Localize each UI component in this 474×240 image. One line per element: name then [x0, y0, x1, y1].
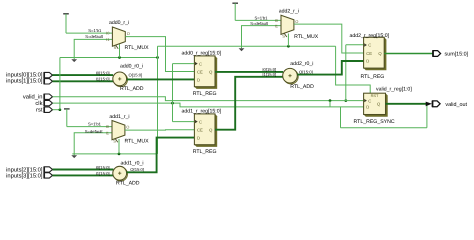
input port inputs[3][15:0]	[6, 172, 52, 179]
wire mux add1_r_i select drop	[118, 139, 120, 154]
svg-text:add2_r0_i: add2_r0_i	[290, 61, 313, 67]
svg-text:inputs[1][15:0]: inputs[1][15:0]	[6, 78, 43, 85]
wire valid_r_reg Q to valid_out port	[386, 103, 427, 105]
svg-text:C: C	[368, 98, 371, 103]
wire mux add2_r_i O to add2_r_reg CE	[294, 24, 364, 53]
svg-text:valid_r_reg[1:0]: valid_r_reg[1:0]	[376, 87, 412, 93]
wire rst riser x157	[157, 46, 159, 154]
wire adder add2_r0_i O bus to add2_r_reg D	[297, 61, 363, 75]
svg-text:RTL_REG: RTL_REG	[193, 91, 217, 97]
wire valid_r feedback riser	[340, 107, 342, 128]
svg-text:add2_r_i: add2_r_i	[279, 8, 299, 14]
junction net at riser x345.8	[344, 99, 347, 102]
value label S=1'b1 mux add0_r_i	[88, 28, 102, 33]
svg-text:inputs[0][15:0]: inputs[0][15:0]	[6, 71, 43, 78]
wire rst row3 (bottom, to add1 mux)	[72, 153, 157, 155]
value label S=1'b1 mux add2_r_i	[254, 16, 268, 21]
wire clk to add1_r_reg C	[173, 121, 195, 123]
svg-text:add1_r_reg[15:0]: add1_r_reg[15:0]	[182, 108, 222, 114]
svg-text:CE: CE	[197, 127, 203, 132]
ground for mux add1_r_i I1	[71, 155, 77, 158]
input port valid_in	[23, 94, 53, 101]
wire valid tap drop to D row	[329, 101, 331, 107]
svg-text:RTL_MUX: RTL_MUX	[294, 34, 319, 40]
const1 vcc for mux add1_r_i	[64, 109, 70, 127]
svg-text:CE: CE	[197, 69, 203, 74]
svg-text:C: C	[199, 119, 202, 124]
wire mux add1_r_i O to add1_r_reg CE	[125, 129, 194, 131]
wire const to mux add1_r_i I0	[67, 126, 112, 128]
pin label O[15:0] adder add0_r0_i	[129, 72, 143, 77]
register add2_r_reg[15:0]	[350, 33, 390, 80]
wire rst row1	[60, 57, 158, 59]
wire inputs[1] bus to adder add0_r0_i I1	[53, 80, 114, 82]
adder add2_r0_i	[283, 61, 314, 90]
svg-text:RST: RST	[371, 93, 379, 98]
pin label O[15:0] adder add2_r0_i	[299, 69, 313, 74]
pin label I1[15:0] adder add1_r0_i	[96, 171, 110, 176]
adder add1_r0_i	[113, 160, 144, 186]
svg-text:I0[15:0]: I0[15:0]	[262, 67, 276, 72]
register valid_r_reg[1:0]	[354, 87, 413, 125]
pin label I0[15:0] adder add2_r0_i	[262, 67, 276, 72]
svg-text:S=default: S=default	[85, 34, 104, 39]
wire add1_r_reg Q bus to adder add2_r0_i I1	[215, 77, 283, 130]
arrowhead valid_out	[426, 102, 432, 107]
svg-text:O: O	[127, 31, 130, 36]
ground for mux add2_r_i I1	[239, 48, 245, 51]
input port inputs[1][15:0]	[6, 78, 52, 85]
wire mux add2_r_i I1 to gnd	[242, 26, 282, 49]
wire rst riser up	[59, 58, 61, 110]
wire rst row2 (to add2 mux and right)	[158, 45, 336, 47]
svg-text:sum[15:0]: sum[15:0]	[445, 52, 469, 58]
input port rst	[36, 107, 52, 114]
wire rst from port to riser	[53, 109, 60, 111]
value label S=1'b1 mux add1_r_i	[88, 122, 102, 127]
svg-text:I0[15:0]: I0[15:0]	[96, 71, 110, 76]
pin label I1[15:0] adder add0_r0_i	[96, 77, 110, 82]
junction clk at riser x172.5	[171, 102, 174, 105]
wire mux add0_r_i O to add0_r_reg CE	[125, 37, 194, 72]
wire clk to add0_r_reg C	[173, 63, 195, 65]
ground for mux add0_r_i I1	[71, 59, 77, 62]
svg-text:D: D	[366, 59, 369, 64]
value label S=default mux add2_r_i	[250, 21, 269, 26]
svg-text:rst: rst	[36, 108, 43, 114]
svg-text:S: S	[113, 139, 116, 144]
svg-text:C: C	[368, 43, 371, 48]
svg-text:RTL_MUX: RTL_MUX	[125, 45, 150, 51]
junction rst at mux add2_r_i select	[287, 45, 290, 48]
svg-text:I1[15:0]: I1[15:0]	[262, 72, 276, 77]
wire mux add1_r_i I1 to gnd	[74, 133, 112, 155]
svg-text:I1[15:0]: I1[15:0]	[96, 171, 110, 176]
svg-text:add0_r_i: add0_r_i	[109, 20, 129, 26]
output port sum[15:0]	[433, 50, 469, 57]
svg-text:I1[15:0]: I1[15:0]	[96, 77, 110, 82]
svg-text:RTL_MUX: RTL_MUX	[125, 139, 150, 145]
mux add2_r_i	[275, 8, 319, 40]
value label S=default mux add1_r_i	[85, 129, 104, 134]
wire valid_r feedback bottom	[341, 127, 427, 129]
svg-text:O: O	[295, 19, 298, 24]
wire valid_in line to valid_r_reg C	[53, 97, 364, 101]
svg-text:D: D	[197, 77, 200, 82]
svg-text:S: S	[114, 45, 117, 50]
wire mux add0_r_i I1 to gnd	[74, 39, 112, 59]
output port valid_out	[433, 101, 468, 108]
wire add2_r_reg Q to sum port	[384, 53, 433, 55]
input port inputs[2][15:0]	[6, 166, 52, 173]
wire mux add2_r_i select drop	[287, 34, 289, 47]
junction rst at mux add0_r_i select	[118, 56, 121, 59]
svg-text:S=1'b1: S=1'b1	[88, 122, 102, 127]
pin label I0[15:0] adder add1_r0_i	[96, 165, 110, 170]
svg-text:CE: CE	[366, 51, 372, 56]
wire clk riser to add0/add1 reg C	[172, 64, 174, 122]
svg-text:clk: clk	[35, 100, 42, 107]
wire inputs[3] bus to adder add1_r0_i I1	[53, 174, 114, 176]
pin label I1[15:0] adder add2_r0_i	[262, 72, 276, 77]
input port inputs[0][15:0]	[6, 71, 52, 78]
pin label I0[15:0] adder add0_r0_i	[96, 71, 110, 76]
wire const to mux add0_r_i I0	[66, 32, 112, 34]
wire riser x345.8 to add2_r_reg C	[345, 45, 347, 101]
register add1_r_reg[15:0]	[182, 108, 222, 154]
wire valid_r feedback up to valid_out net	[426, 104, 428, 128]
input port clk	[35, 100, 52, 107]
mux add1_r_i	[106, 114, 149, 145]
svg-text:RTL_ADD: RTL_ADD	[116, 181, 140, 187]
svg-text:add2_r_reg[15:0]: add2_r_reg[15:0]	[350, 33, 390, 39]
svg-text:add1_r0_i: add1_r0_i	[121, 160, 144, 166]
svg-text:S=1'b1: S=1'b1	[254, 16, 268, 21]
wire add0_r_reg Q bus to adder add2_r0_i I0	[215, 71, 283, 73]
junction rst riser	[59, 108, 62, 111]
wire inputs[0] bus to adder add0_r0_i I0	[53, 74, 114, 76]
wire clk line	[53, 103, 364, 107]
svg-text:add0_r0_i: add0_r0_i	[120, 64, 143, 70]
svg-text:RTL_ADD: RTL_ADD	[120, 86, 144, 92]
const1 vcc for mux add0_r_i	[63, 14, 69, 33]
const1 vcc for mux add2_r_i	[232, 3, 238, 20]
svg-text:RTL_REG_SYNC: RTL_REG_SYNC	[354, 119, 395, 125]
junction valid net tap	[329, 99, 332, 102]
svg-text:inputs[3][15:0]: inputs[3][15:0]	[6, 172, 43, 179]
wire mux add0_r_i select drop	[119, 44, 121, 57]
junction rst row1 to riser x157	[156, 56, 159, 59]
adder add0_r0_i	[113, 64, 144, 93]
svg-text:C: C	[199, 61, 202, 66]
svg-text:O[15:0]: O[15:0]	[299, 69, 313, 74]
register add0_r_reg[15:0]	[182, 50, 222, 97]
svg-text:D: D	[197, 135, 200, 140]
svg-text:D: D	[366, 104, 369, 109]
svg-text:O[15:0]: O[15:0]	[129, 72, 143, 77]
pin label O[15:0] adder add1_r0_i	[130, 167, 144, 172]
svg-text:valid_in: valid_in	[23, 94, 43, 101]
wire adder add1_r0_i O bus to add1_r_reg D	[127, 138, 195, 173]
svg-text:RTL_REG: RTL_REG	[361, 74, 385, 80]
svg-text:add0_r_reg[15:0]: add0_r_reg[15:0]	[182, 50, 222, 56]
svg-text:S=default: S=default	[85, 129, 104, 134]
svg-text:RTL_REG: RTL_REG	[193, 149, 217, 155]
svg-text:S=default: S=default	[250, 21, 269, 26]
svg-text:RTL_ADD: RTL_ADD	[290, 84, 314, 90]
mux add0_r_i	[106, 20, 149, 51]
wire rst right drop to valid_r_reg	[336, 46, 371, 93]
value label S=default mux add0_r_i	[85, 34, 104, 39]
svg-text:valid_out: valid_out	[445, 102, 467, 108]
wire clk to add2_r_reg C	[346, 44, 364, 46]
svg-text:S=1'b1: S=1'b1	[88, 28, 102, 33]
junction rst at mux add1_r_i select	[118, 153, 121, 156]
svg-text:O: O	[126, 125, 129, 130]
wire const to mux add2_r_i I0	[235, 19, 281, 21]
svg-text:S: S	[282, 33, 285, 38]
wire inputs[2] bus to adder add1_r0_i I0	[53, 169, 114, 171]
wire adder add0_r0_i O bus to add0_r_reg D	[127, 78, 194, 80]
svg-text:I0[15:0]: I0[15:0]	[96, 165, 110, 170]
svg-text:add1_r_i: add1_r_i	[109, 114, 129, 120]
